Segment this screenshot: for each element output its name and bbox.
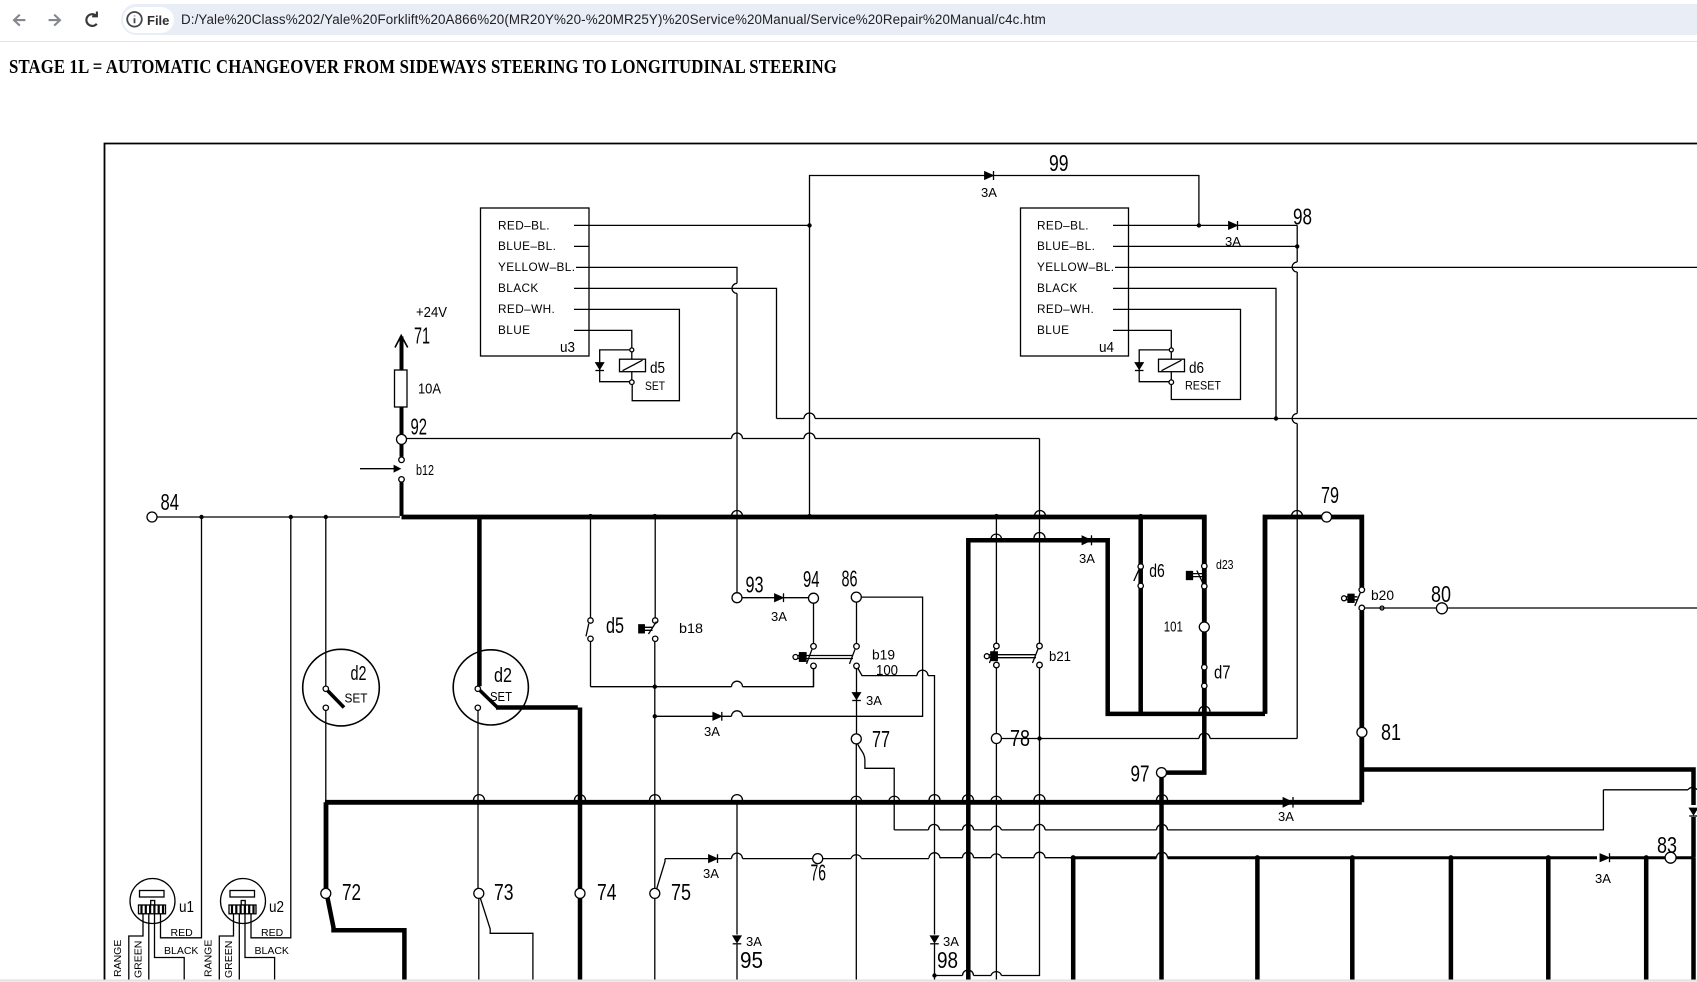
svg-text:b18: b18 xyxy=(679,620,703,636)
contact b18 xyxy=(639,517,658,642)
svg-text:BLACK: BLACK xyxy=(164,945,198,957)
d6 suppressor diode branch xyxy=(1135,350,1171,382)
relay d2 first xyxy=(303,649,380,726)
svg-text:92: 92 xyxy=(411,414,428,440)
wire 78 rail to 98 xyxy=(1001,738,1297,740)
wire 716 rail xyxy=(655,597,923,716)
svg-text:b12: b12 xyxy=(416,462,434,479)
svg-text:3A: 3A xyxy=(981,185,997,200)
svg-text:83: 83 xyxy=(1657,832,1677,858)
hop 802 x1162 xyxy=(1157,795,1168,800)
wire net 80 xyxy=(1365,607,1697,609)
svg-text:d6: d6 xyxy=(1149,561,1165,581)
bus junction b18 xyxy=(652,514,657,519)
node 92 xyxy=(397,414,428,445)
node 73 xyxy=(474,879,514,905)
hop 830 over x996 xyxy=(991,826,1002,830)
sensor u2 xyxy=(221,879,266,924)
u4 pin stubs xyxy=(1113,225,1128,330)
svg-text:3A: 3A xyxy=(704,724,720,739)
main bus +24V switched xyxy=(402,517,1205,712)
diode 3A on 99 xyxy=(985,171,994,180)
wire 857 rail thick xyxy=(1073,856,1597,859)
node 75 xyxy=(650,879,691,905)
75 blade xyxy=(657,859,666,890)
hop 830 over x1162 xyxy=(1157,824,1168,830)
d5 suppressor diode branch xyxy=(595,350,631,382)
wire d5 contact to 686 rail xyxy=(590,642,592,687)
wire net 99 xyxy=(810,176,1199,226)
svg-text:3A: 3A xyxy=(1595,871,1611,886)
diode 3A on 857 xyxy=(1600,853,1610,862)
contact b20 xyxy=(1342,587,1365,611)
svg-text:84: 84 xyxy=(161,489,180,515)
wire 975 rail xyxy=(935,972,1040,976)
wire 857 rail xyxy=(665,857,1073,860)
hop 857 x968 xyxy=(963,852,974,857)
junction 84/u1 xyxy=(199,515,203,519)
contact d23 xyxy=(1187,563,1208,589)
svg-text:3A: 3A xyxy=(771,609,787,624)
wire 686 rail xyxy=(591,669,814,687)
svg-text:10A: 10A xyxy=(418,381,441,398)
hop 802 x856 xyxy=(851,796,862,800)
hop 802 x479 xyxy=(474,795,485,800)
b19 actuator bar xyxy=(793,653,853,662)
relay line d23/101/d7 xyxy=(1167,517,1205,773)
svg-text:95: 95 xyxy=(740,947,763,973)
wire d2 second lower contact down xyxy=(477,711,479,889)
lower bus 802 xyxy=(325,800,1362,805)
omnibox xyxy=(121,4,1697,35)
node 77 xyxy=(851,726,890,752)
node stub b20 xyxy=(1380,606,1384,610)
u4 wire labels xyxy=(1037,219,1114,338)
svg-text:d5: d5 xyxy=(606,613,624,638)
bus junction d6 xyxy=(1138,514,1143,519)
svg-text:SET: SET xyxy=(345,691,368,706)
wire u4 BLACK xyxy=(1128,288,1276,418)
u2 GREEN wire xyxy=(238,914,240,982)
wire d2 second blade out thick xyxy=(496,708,580,982)
diode 3A x737 bottom xyxy=(733,936,742,944)
svg-text:77: 77 xyxy=(872,726,890,752)
hop 540 over x1039 xyxy=(1034,533,1045,539)
node 94 xyxy=(803,566,820,603)
svg-text:d7: d7 xyxy=(1214,663,1231,683)
relay d2 second xyxy=(453,650,528,725)
wire u4 BLUE-BL xyxy=(1128,245,1297,247)
hop 857 x737 xyxy=(732,853,743,859)
u3 wire labels xyxy=(498,219,575,338)
node 80 xyxy=(1431,581,1451,614)
svg-text:BLUE–BL.: BLUE–BL. xyxy=(498,239,556,253)
hop 716 over x737 xyxy=(732,711,743,717)
u2 RED wire xyxy=(251,517,291,938)
relay coil d5 xyxy=(620,359,646,372)
wire u4 BLUE xyxy=(1128,330,1171,382)
diode 3A x934 xyxy=(930,936,939,944)
svg-text:93: 93 xyxy=(746,572,764,598)
switch b12 xyxy=(360,457,404,482)
node 74 xyxy=(575,879,617,905)
bus hop at x737 xyxy=(732,511,743,517)
pin x1646 xyxy=(1644,855,1649,982)
hop 830 over x934 xyxy=(929,824,940,830)
fuse 10A xyxy=(395,370,408,434)
u2 BLACK wire xyxy=(245,914,275,982)
back arrow xyxy=(14,15,25,26)
hop 802 x934 xyxy=(929,795,940,800)
svg-text:98: 98 xyxy=(937,947,958,973)
sensor u1 xyxy=(130,879,175,924)
svg-text:BLUE: BLUE xyxy=(498,323,530,337)
wire d2 first to bus802 xyxy=(325,711,327,802)
diode 3A on 540 xyxy=(1082,535,1092,545)
junction b18/716 rail xyxy=(653,714,657,718)
node 76 xyxy=(811,854,827,886)
svg-text:79: 79 xyxy=(1321,482,1339,508)
u1 RANGE wire xyxy=(129,914,143,982)
node 81 xyxy=(1357,719,1401,745)
svg-text:RANGE: RANGE xyxy=(203,940,215,977)
pin x1693 xyxy=(1691,858,1696,982)
junction 100/975 rail xyxy=(932,973,936,977)
svg-text:GREEN: GREEN xyxy=(133,941,145,978)
hop x737 over BLACK xyxy=(732,283,737,293)
u4 connector box xyxy=(1021,208,1129,356)
b20 blade xyxy=(1355,593,1361,606)
wire 97 pin down xyxy=(1159,778,1164,982)
thick rail 770 xyxy=(1362,770,1694,806)
svg-text:100: 100 xyxy=(876,662,898,679)
wire u3 BLACK xyxy=(589,288,777,418)
reload icon xyxy=(86,12,97,26)
svg-text:d5: d5 xyxy=(650,360,665,377)
contact b21 left xyxy=(989,517,999,668)
svg-text:3A: 3A xyxy=(866,693,882,708)
node 86 xyxy=(842,566,862,603)
svg-text:74: 74 xyxy=(597,879,617,905)
wire 94 down to b19 xyxy=(813,603,815,643)
svg-text:BLUE: BLUE xyxy=(1037,323,1069,337)
svg-text:RED–BL.: RED–BL. xyxy=(498,219,550,233)
junction 99/u4 RED-BL xyxy=(1197,223,1201,227)
node 97 xyxy=(1131,761,1167,787)
contact b19 right xyxy=(850,644,860,669)
hop 830 over x1039 xyxy=(1034,824,1045,830)
wire u3 RED-WH xyxy=(589,309,679,400)
svg-text:71: 71 xyxy=(414,323,430,349)
svg-text:RED–WH.: RED–WH. xyxy=(1037,302,1094,316)
wire u4 YELLOW-BL xyxy=(1128,266,1697,268)
hop 802 x655 xyxy=(650,795,661,800)
wire net 92 horizontal xyxy=(407,438,1040,440)
bus junction b21 xyxy=(994,514,999,519)
svg-text:80: 80 xyxy=(1431,581,1451,607)
svg-text:98: 98 xyxy=(1293,204,1312,230)
wire u4 RED-WH xyxy=(1128,309,1240,399)
hop 802 x968 xyxy=(963,795,974,800)
node 72 xyxy=(321,879,361,905)
svg-text:76: 76 xyxy=(811,860,827,886)
u2 RANGE wire xyxy=(219,914,233,982)
svg-text:b21: b21 xyxy=(1049,648,1071,664)
72 blade xyxy=(328,898,405,982)
junction 84/d2 xyxy=(324,515,328,519)
bus junction x809 xyxy=(807,514,812,519)
svg-text:d2: d2 xyxy=(351,663,367,685)
wire 73 pin down xyxy=(478,898,480,982)
u3 pin stubs xyxy=(574,225,589,330)
svg-text:d23: d23 xyxy=(1216,557,1234,572)
b21 actuator bar xyxy=(984,652,1036,661)
77 changeover blade xyxy=(858,744,895,830)
d2 first contacts xyxy=(323,517,344,711)
junction u4 BLACK xyxy=(1274,416,1278,420)
d2 second feed thick xyxy=(477,517,482,686)
svg-text:3A: 3A xyxy=(1079,551,1095,566)
wire u4 RED-BL to 98 xyxy=(1128,224,1297,226)
pin x1352 xyxy=(1350,855,1355,982)
wire u3 RED-BL xyxy=(589,224,810,226)
hop 540 over x996 xyxy=(991,534,1002,538)
wire 92 to b12 xyxy=(400,444,404,456)
svg-text:94: 94 xyxy=(803,566,820,592)
relay line d6 contact xyxy=(1134,517,1144,714)
svg-text:3A: 3A xyxy=(703,866,719,881)
junction RED-BL/99 xyxy=(807,223,811,227)
node 79 xyxy=(1321,482,1339,522)
contact b21 right xyxy=(1033,643,1043,668)
node 83 xyxy=(1657,832,1677,863)
wire b12 to bus corner xyxy=(400,482,404,516)
hop 802 x580 xyxy=(575,795,586,800)
pin x1073 xyxy=(1071,855,1076,982)
d2 second contacts xyxy=(475,686,497,710)
contact d5 xyxy=(586,517,593,642)
wire 84 line xyxy=(157,516,400,518)
hop 975 over x996 xyxy=(991,972,1002,976)
wire u3 BLUE xyxy=(589,330,632,382)
wire net 92 vertical xyxy=(1039,439,1041,973)
svg-text:RED: RED xyxy=(261,927,284,939)
wire 78 pin down xyxy=(995,744,997,982)
diode 3A on 857 left xyxy=(709,854,718,863)
svg-text:101: 101 xyxy=(1164,619,1183,636)
svg-text:d2: d2 xyxy=(494,665,512,687)
thick feed loop 3A xyxy=(968,540,1265,982)
file chip xyxy=(123,7,174,33)
u1 BLACK wire xyxy=(155,914,185,982)
pin x1547 xyxy=(1546,855,1551,982)
junction 78 rail x1039 xyxy=(1037,736,1041,740)
wire bus802 to 72 thick xyxy=(324,802,329,888)
hop 686 over x737 xyxy=(732,681,743,686)
svg-text:73: 73 xyxy=(494,879,514,905)
wire u3 RED-BL down to bus xyxy=(809,225,811,516)
forward arrow xyxy=(49,15,60,26)
u1 RED wire xyxy=(161,517,202,938)
svg-text:b20: b20 xyxy=(1371,587,1394,603)
wire 75 pin down xyxy=(654,898,656,982)
bus junction d5 xyxy=(588,514,593,519)
wire 93 to 94 xyxy=(742,597,809,599)
svg-text:3A: 3A xyxy=(1278,809,1294,824)
hop 802 x1039 xyxy=(1034,795,1045,800)
wire 94 b19 to 686 corner xyxy=(813,669,815,687)
diode on x1693 xyxy=(1689,808,1697,858)
svg-text:75: 75 xyxy=(671,879,691,905)
node 101 xyxy=(1164,619,1210,636)
hop 714 over x1204 xyxy=(1199,706,1210,711)
svg-text:97: 97 xyxy=(1131,761,1150,787)
svg-text:u1: u1 xyxy=(179,899,194,916)
svg-text:RESET: RESET xyxy=(1185,381,1221,393)
hop 802 x996 xyxy=(991,796,1002,800)
wire b21 left to 78 xyxy=(995,668,997,734)
hop 78 rail over x1204 xyxy=(1199,733,1210,738)
hop 802 x894 xyxy=(889,796,900,800)
heading xyxy=(9,56,837,79)
svg-text:RED–BL.: RED–BL. xyxy=(1037,219,1089,233)
wire net BLACK horizontal xyxy=(777,418,1697,420)
u3 connector box xyxy=(481,208,590,356)
junction 84/u2 xyxy=(289,515,293,519)
hop 857 x1162 xyxy=(1157,852,1168,857)
svg-text:u2: u2 xyxy=(269,899,284,916)
hop 857 x856 xyxy=(851,855,862,859)
hop 857 x996 xyxy=(991,854,1002,858)
hop busB over x1297 xyxy=(1292,511,1303,517)
u1 GREEN wire xyxy=(148,914,150,982)
wire 77 pin down xyxy=(855,744,857,982)
relay coil d6 xyxy=(1159,359,1185,372)
info icon xyxy=(127,12,142,27)
svg-text:BLACK: BLACK xyxy=(1037,281,1078,295)
hop 975 over x968 xyxy=(963,970,974,975)
d5 branch junctions xyxy=(630,348,635,385)
hop 830 over x968 xyxy=(963,824,974,830)
diode 3A on 716 rail xyxy=(713,712,722,721)
svg-text:BLACK: BLACK xyxy=(255,945,289,957)
svg-text:b19: b19 xyxy=(872,647,895,663)
hop 857 x1039 xyxy=(1034,852,1045,857)
junction b18/686 rail xyxy=(653,685,657,689)
svg-text:BLACK: BLACK xyxy=(498,281,539,295)
nav icons xyxy=(0,0,160,41)
hop BLACK over x809 xyxy=(804,413,815,419)
wire 830 rail xyxy=(894,790,1603,830)
node 93 xyxy=(732,572,764,603)
browser toolbar xyxy=(0,0,1697,42)
wire u3 YELLOW-BL xyxy=(589,267,737,592)
wire 857 thick right xyxy=(1610,856,1694,859)
svg-text:86: 86 xyxy=(842,566,858,592)
svg-text:RED–WH.: RED–WH. xyxy=(498,302,555,316)
contact b19 left xyxy=(807,644,817,669)
node 78 xyxy=(991,725,1030,751)
node 84 xyxy=(147,489,179,522)
wire b18 contact down xyxy=(654,642,656,889)
junction 98/BLUE-BL xyxy=(1295,244,1299,248)
svg-text:SET: SET xyxy=(645,381,665,393)
73 blade xyxy=(480,898,533,982)
svg-text:d6: d6 xyxy=(1189,360,1204,377)
wire x737 bottom xyxy=(736,804,738,982)
hop 802 x737 xyxy=(732,795,743,800)
svg-text:RED: RED xyxy=(171,927,194,939)
svg-text:GREEN: GREEN xyxy=(223,941,235,978)
diode 3A vertical x856 xyxy=(852,693,861,701)
svg-text:YELLOW–BL.: YELLOW–BL. xyxy=(498,260,575,274)
d6 branch junctions xyxy=(1169,348,1174,385)
svg-text:BLUE–BL.: BLUE–BL. xyxy=(1037,239,1095,253)
page bottom rule xyxy=(0,980,1697,982)
svg-text:RANGE: RANGE xyxy=(112,940,124,977)
hop 790 over x1693 xyxy=(1688,787,1697,789)
svg-text:81: 81 xyxy=(1381,719,1401,745)
hop 92 over x737 xyxy=(732,433,743,439)
svg-text:YELLOW–BL.: YELLOW–BL. xyxy=(1037,260,1114,274)
bus hop at x1040 xyxy=(1035,511,1046,517)
net 100 wire xyxy=(858,669,935,982)
wire 86 down to b19 right xyxy=(856,602,858,643)
pin x1257 xyxy=(1255,855,1260,982)
bus segment B xyxy=(1265,517,1362,802)
wire 790 rail right xyxy=(1603,789,1697,791)
hop 857 x934 xyxy=(929,853,940,858)
hop 92 over x809 xyxy=(804,433,815,439)
wire net 98 vertical xyxy=(1292,225,1297,738)
diode 3A u4 RED-BL xyxy=(1229,221,1238,230)
diode 3A on 802 xyxy=(1283,797,1293,808)
contact d7 xyxy=(1202,665,1207,690)
svg-text:u3: u3 xyxy=(560,339,575,356)
svg-text:99: 99 xyxy=(1049,150,1069,176)
svg-text:72: 72 xyxy=(342,879,361,905)
pin x1451 xyxy=(1448,855,1453,982)
wire b19 right to diode xyxy=(856,669,858,734)
hop 100 over x922 xyxy=(917,670,928,676)
svg-text:u4: u4 xyxy=(1099,339,1114,356)
diode 3A 93-94 xyxy=(775,593,784,602)
svg-text:+24V: +24V xyxy=(416,304,447,321)
+24V arrow xyxy=(395,336,408,371)
